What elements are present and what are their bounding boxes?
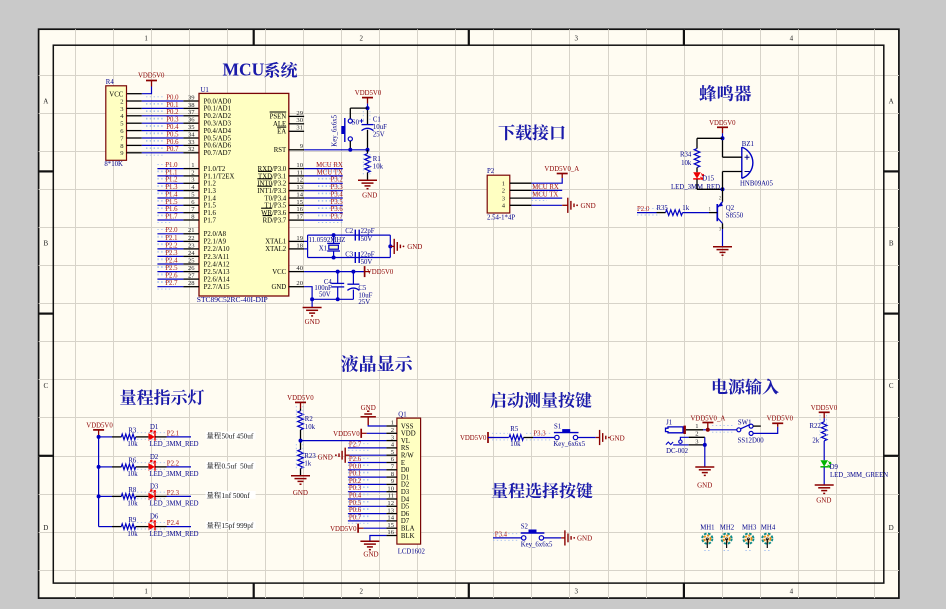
svg-text:2k: 2k — [812, 438, 819, 445]
svg-text:R3: R3 — [128, 427, 137, 434]
svg-text:P0.4: P0.4 — [166, 124, 179, 131]
svg-text:23: 23 — [188, 242, 195, 249]
svg-text:GND: GND — [697, 482, 712, 490]
svg-text:P1.3: P1.3 — [165, 184, 178, 191]
resistor R3 — [121, 434, 135, 440]
svg-text:GND: GND — [610, 434, 625, 442]
wire — [524, 437, 534, 439]
svg-text:P2.1: P2.1 — [167, 430, 179, 437]
svg-text:1k: 1k — [304, 461, 311, 468]
wire RST — [304, 149, 367, 151]
resistor R5 — [509, 435, 523, 441]
svg-text:28: 28 — [188, 280, 195, 287]
svg-text:DC-002: DC-002 — [666, 448, 689, 455]
svg-text:1: 1 — [191, 162, 194, 169]
svg-text:C3: C3 — [345, 251, 354, 258]
svg-text:P0.2: P0.2 — [349, 478, 362, 485]
annotation — [206, 462, 256, 470]
svg-text:13: 13 — [296, 184, 303, 191]
svg-text:P0.6: P0.6 — [349, 507, 362, 514]
wire — [155, 466, 166, 468]
svg-text:D3: D3 — [401, 489, 410, 496]
svg-text:25: 25 — [188, 257, 195, 264]
resistor R9 — [121, 524, 135, 530]
svg-text:MCU RX: MCU RX — [532, 184, 559, 191]
svg-text:GND: GND — [271, 284, 286, 291]
svg-text:P1.1: P1.1 — [165, 169, 177, 176]
svg-text:39: 39 — [188, 94, 195, 101]
annotation — [206, 521, 256, 529]
svg-text:P0.3: P0.3 — [349, 485, 362, 492]
svg-text:D9: D9 — [830, 464, 839, 471]
svg-text:2: 2 — [120, 98, 123, 105]
resistor R6 — [121, 464, 135, 470]
power VDD5V0 (SW1) — [772, 422, 783, 424]
wires XTAL — [304, 240, 308, 242]
svg-text:GND: GND — [577, 535, 592, 543]
svg-text:3: 3 — [575, 588, 579, 596]
svg-text:Key_6x6x5: Key_6x6x5 — [332, 114, 339, 146]
svg-text:P0.7: P0.7 — [349, 514, 362, 521]
wire MCU RX — [531, 189, 562, 191]
svg-text:P1.2: P1.2 — [204, 181, 217, 188]
svg-text:B: B — [43, 240, 48, 248]
svg-text:A: A — [889, 97, 894, 105]
svg-text:R/W: R/W — [401, 453, 414, 460]
svg-text:R5: R5 — [510, 426, 519, 433]
svg-text:1: 1 — [502, 181, 505, 188]
svg-text:Q1: Q1 — [398, 411, 406, 418]
wire — [696, 179, 698, 189]
svg-text:C: C — [889, 382, 894, 390]
svg-text:VDD5V0: VDD5V0 — [86, 422, 113, 429]
svg-text:10k: 10k — [127, 531, 138, 538]
svg-text:14: 14 — [296, 191, 303, 198]
svg-text:R1: R1 — [373, 156, 381, 163]
svg-text:P0.0: P0.0 — [349, 463, 362, 470]
svg-text:Q2: Q2 — [726, 205, 735, 212]
svg-text:GND: GND — [362, 192, 377, 200]
svg-text:1: 1 — [391, 420, 394, 427]
svg-text:P1.5: P1.5 — [165, 199, 178, 206]
svg-text:T0/P3.4: T0/P3.4 — [264, 195, 286, 202]
svg-text:12: 12 — [296, 177, 303, 184]
svg-text:35: 35 — [188, 124, 195, 131]
svg-text:VDD5V0: VDD5V0 — [287, 395, 314, 402]
svg-text:HNB09A05: HNB09A05 — [740, 180, 773, 187]
svg-text:3: 3 — [575, 35, 579, 43]
svg-text:C2: C2 — [345, 228, 354, 235]
svg-text:S8550: S8550 — [726, 213, 744, 220]
wire row P2.4 — [99, 526, 112, 528]
svg-text:LED_3MM_RED: LED_3MM_RED — [150, 531, 199, 538]
svg-text:X1: X1 — [319, 245, 327, 252]
svg-text:GND: GND — [407, 243, 422, 251]
switch S1 Key_6x6x5 — [555, 435, 559, 439]
svg-text:50V: 50V — [361, 236, 373, 243]
svg-text:E: E — [401, 460, 405, 467]
svg-text:SS12D00: SS12D00 — [738, 437, 765, 444]
svg-text:GND: GND — [816, 496, 831, 504]
svg-text:P0.4/AD4: P0.4/AD4 — [204, 128, 232, 135]
capacitor C5 — [352, 272, 354, 285]
capacitor C3 — [354, 252, 356, 263]
wire — [300, 430, 302, 450]
svg-text:16: 16 — [387, 529, 394, 536]
svg-text:D6: D6 — [401, 511, 410, 518]
svg-text:P0.0/AD0: P0.0/AD0 — [204, 98, 232, 105]
svg-text:P3.6: P3.6 — [331, 206, 344, 213]
svg-text:J1: J1 — [666, 419, 672, 426]
svg-text:VDD5V0: VDD5V0 — [355, 90, 382, 97]
svg-text:BLA: BLA — [401, 526, 415, 533]
svg-text:R6: R6 — [128, 457, 137, 464]
resistor R34 — [694, 149, 700, 168]
svg-text:P1.6: P1.6 — [204, 210, 217, 217]
ground (D9) — [815, 484, 834, 486]
svg-text:R23: R23 — [304, 453, 316, 460]
wire — [823, 441, 825, 460]
wire VCC — [304, 271, 365, 273]
svg-text:Key_6x6x5: Key_6x6x5 — [521, 542, 553, 549]
wire pin1 to VDD5V0_A — [531, 178, 562, 183]
svg-text:BLK: BLK — [401, 533, 415, 540]
wire — [637, 212, 657, 214]
svg-text:P3.5: P3.5 — [331, 199, 344, 206]
svg-text:22: 22 — [188, 235, 195, 242]
svg-text:VDD5V0: VDD5V0 — [767, 415, 794, 422]
svg-text:P2.3/A11: P2.3/A11 — [204, 254, 230, 261]
svg-text:50V: 50V — [319, 292, 331, 299]
wire — [823, 467, 825, 485]
title start measure button — [490, 392, 505, 408]
svg-text:P0.1/AD1: P0.1/AD1 — [204, 106, 231, 113]
svg-text:PSEN: PSEN — [270, 114, 287, 121]
svg-text:P1.7: P1.7 — [204, 217, 217, 224]
wire — [722, 133, 724, 138]
svg-text:P3.7: P3.7 — [331, 213, 344, 220]
resistor R8 — [121, 494, 135, 500]
svg-text:2: 2 — [695, 431, 698, 438]
svg-text:24: 24 — [188, 250, 195, 257]
svg-text:RS: RS — [401, 445, 410, 452]
svg-text:MCU TX: MCU TX — [532, 192, 558, 199]
svg-text:P0.4: P0.4 — [349, 493, 362, 500]
svg-text:P2.4/A12: P2.4/A12 — [204, 261, 230, 268]
svg-text:2: 2 — [359, 588, 363, 596]
title LCD display — [341, 355, 358, 372]
wire — [155, 436, 166, 438]
svg-text:P2.4: P2.4 — [167, 520, 180, 527]
svg-text:8*10K: 8*10K — [104, 161, 123, 168]
wire — [136, 495, 149, 497]
svg-text:11: 11 — [297, 169, 303, 176]
title download port — [499, 124, 515, 140]
svg-text:XTAL2: XTAL2 — [265, 246, 287, 253]
svg-text:19: 19 — [296, 235, 303, 242]
svg-text:R34: R34 — [680, 152, 692, 159]
wire — [136, 526, 149, 528]
svg-text:MCU RX: MCU RX — [316, 162, 343, 169]
svg-text:D1: D1 — [401, 474, 409, 481]
svg-text:38: 38 — [188, 102, 195, 109]
svg-text:10k: 10k — [127, 501, 138, 508]
svg-text:D0: D0 — [401, 467, 410, 474]
title range indicator LEDs — [120, 389, 136, 405]
LED D1 LED_3MM_RED — [148, 433, 154, 441]
title buzzer — [699, 85, 716, 101]
wire — [142, 87, 152, 94]
svg-text:21: 21 — [188, 227, 195, 234]
svg-text:P2.6/A14: P2.6/A14 — [204, 276, 230, 283]
svg-text:MH3: MH3 — [742, 525, 757, 532]
svg-text:17: 17 — [296, 213, 303, 220]
svg-text:1k: 1k — [682, 205, 689, 212]
wire VL — [301, 440, 387, 442]
annotation — [206, 491, 256, 499]
wire C1 to RST — [367, 130, 369, 150]
svg-text:2: 2 — [359, 35, 363, 43]
capacitor C4 — [337, 272, 339, 284]
svg-text:VDD5V0: VDD5V0 — [709, 120, 736, 127]
svg-text:P0.3: P0.3 — [166, 117, 179, 124]
svg-text:11.0592MHZ: 11.0592MHZ — [309, 237, 346, 244]
svg-text:26: 26 — [188, 265, 195, 272]
svg-text:P2.4: P2.4 — [165, 257, 178, 264]
wire GND pin — [304, 287, 353, 300]
wire S0 to RST — [349, 141, 351, 150]
svg-text:LED_3MM_GREEN: LED_3MM_GREEN — [830, 472, 888, 479]
resistor R1 — [367, 150, 369, 154]
svg-text:D15: D15 — [702, 176, 714, 183]
svg-text:P2.2: P2.2 — [165, 242, 178, 249]
title range select button — [492, 483, 508, 499]
svg-text:BZ1: BZ1 — [742, 141, 754, 148]
svg-text:GND: GND — [305, 318, 320, 326]
svg-text:P3.2: P3.2 — [331, 177, 344, 184]
svg-text:R22: R22 — [809, 423, 821, 430]
svg-text:P2.5: P2.5 — [165, 265, 178, 272]
svg-text:2.54-1*4P: 2.54-1*4P — [487, 215, 515, 222]
wire row P2.1 — [99, 436, 112, 438]
wire emitter — [722, 189, 724, 202]
svg-text:P0.7/AD7: P0.7/AD7 — [204, 150, 232, 157]
svg-text:25V: 25V — [373, 131, 385, 138]
svg-text:LED_3MM_RED: LED_3MM_RED — [150, 501, 199, 508]
resistor R2 — [298, 411, 304, 430]
wire BLK to GND — [370, 536, 387, 542]
ground (BLK) — [360, 540, 379, 542]
resistor R23 — [298, 450, 304, 469]
svg-text:MH2: MH2 — [720, 525, 735, 532]
svg-text:P2.7/A15: P2.7/A15 — [204, 284, 230, 291]
svg-text:VL: VL — [401, 438, 410, 445]
ground (reset) — [358, 179, 377, 181]
svg-text:P1.1/T2EX: P1.1/T2EX — [204, 173, 235, 180]
svg-text:R4: R4 — [106, 79, 115, 86]
svg-text:D3: D3 — [150, 484, 159, 491]
ground (crystal) — [390, 245, 394, 247]
svg-text:S1: S1 — [554, 423, 561, 430]
svg-text:P2.0/A8: P2.0/A8 — [204, 231, 227, 238]
svg-text:10: 10 — [296, 162, 303, 169]
svg-text:VDD5V0: VDD5V0 — [367, 269, 394, 276]
svg-text:D2: D2 — [150, 454, 159, 461]
svg-text:33: 33 — [188, 139, 195, 146]
svg-text:15: 15 — [296, 199, 303, 206]
svg-text:P1.7: P1.7 — [165, 213, 178, 220]
svg-text:Key_6x6x5: Key_6x6x5 — [553, 441, 585, 448]
svg-text:10k: 10k — [373, 164, 384, 171]
svg-text:P1.5: P1.5 — [204, 203, 217, 210]
svg-text:C: C — [43, 382, 48, 390]
wire MCU TX — [531, 197, 562, 199]
svg-text:P2.5/A13: P2.5/A13 — [204, 269, 230, 276]
svg-text:40: 40 — [296, 265, 303, 272]
svg-text:R2: R2 — [305, 416, 314, 423]
wire SW1 to VDD5V0 — [753, 427, 778, 434]
LED D2 LED_3MM_RED — [148, 463, 154, 471]
wire VDD to S0/C1 — [367, 104, 369, 109]
svg-text:29: 29 — [296, 110, 303, 117]
wire bus — [98, 436, 100, 527]
svg-text:1: 1 — [144, 35, 148, 43]
LED D6 LED_3MM_RED — [148, 523, 154, 531]
svg-text:D4: D4 — [401, 496, 410, 503]
svg-text:GND: GND — [581, 202, 596, 210]
svg-text:P2.2: P2.2 — [167, 460, 180, 467]
title power input — [713, 379, 728, 394]
svg-text:10k: 10k — [510, 441, 521, 448]
svg-text:D1: D1 — [150, 424, 158, 431]
switch S0 Key_6x6x5 — [348, 119, 352, 123]
svg-text:30: 30 — [296, 117, 303, 124]
svg-text:VDD5V0_A: VDD5V0_A — [544, 166, 579, 173]
svg-text:P2.7: P2.7 — [165, 280, 178, 287]
wire pin4 to GND — [531, 204, 562, 206]
power VDD5V0_A — [557, 173, 568, 175]
svg-text:2: 2 — [502, 188, 505, 195]
svg-text:22pF: 22pF — [361, 251, 375, 258]
svg-text:GND: GND — [318, 454, 333, 462]
svg-text:MH4: MH4 — [761, 525, 776, 532]
svg-text:P2.1: P2.1 — [165, 235, 177, 242]
ground (J1) — [695, 466, 714, 468]
wire — [823, 418, 825, 422]
wire — [136, 466, 149, 468]
ground (download) — [567, 198, 569, 213]
svg-text:4: 4 — [790, 588, 794, 596]
wire pin1 — [686, 429, 703, 431]
svg-text:C5: C5 — [358, 285, 367, 292]
svg-text:P1.4: P1.4 — [165, 191, 178, 198]
svg-text:4: 4 — [790, 35, 794, 43]
LED D9 LED_3MM_GREEN — [820, 460, 828, 466]
svg-text:XTAL1: XTAL1 — [265, 239, 286, 246]
svg-text:P0.6/AD6: P0.6/AD6 — [204, 143, 232, 150]
svg-text:2: 2 — [191, 169, 194, 176]
svg-text:10uF: 10uF — [373, 124, 387, 131]
svg-text:LCD1602: LCD1602 — [398, 549, 426, 556]
transistor Q2 S8550 — [716, 204, 718, 221]
svg-text:34: 34 — [188, 131, 195, 138]
svg-text:P1.6: P1.6 — [165, 206, 178, 213]
svg-text:P0.7: P0.7 — [166, 146, 179, 153]
svg-text:31: 31 — [296, 125, 303, 132]
svg-text:D2: D2 — [401, 482, 410, 489]
U1 left P1 P2 stubs and net labels — [157, 168, 183, 170]
svg-text:50V: 50V — [361, 259, 373, 266]
capacitor C1 — [362, 124, 374, 126]
svg-text:P2: P2 — [487, 168, 495, 175]
svg-text:VDD5V0: VDD5V0 — [811, 405, 838, 412]
svg-text:P1.2: P1.2 — [165, 177, 178, 184]
svg-text:P2.6: P2.6 — [165, 273, 178, 280]
svg-text:S2: S2 — [521, 524, 529, 531]
svg-text:P0.6: P0.6 — [166, 139, 179, 146]
ground (buzzer) — [713, 246, 732, 248]
wire — [136, 436, 149, 438]
wire — [696, 168, 698, 173]
annotation — [206, 432, 256, 440]
svg-text:P0.1: P0.1 — [349, 471, 361, 478]
svg-text:P0.5: P0.5 — [166, 131, 179, 138]
svg-text:1: 1 — [144, 588, 148, 596]
wires R4 to U1 P0 bus — [127, 100, 142, 102]
svg-text:P1.3: P1.3 — [204, 188, 217, 195]
svg-text:P2.0: P2.0 — [637, 206, 650, 213]
power VDD5V0 (VCC pin) — [364, 266, 366, 277]
wires U1 P3 nets — [304, 168, 343, 170]
crystal X1 11.0592MHZ — [327, 242, 340, 244]
svg-text:25V: 25V — [358, 299, 370, 306]
svg-text:D5: D5 — [401, 504, 410, 511]
wire — [493, 537, 521, 539]
svg-text:R8: R8 — [128, 487, 137, 494]
wire pin3 sleeve — [666, 442, 673, 445]
svg-text:MCU: MCU — [223, 59, 265, 79]
svg-text:P3.3: P3.3 — [331, 184, 344, 191]
data wires P0.0-P0.7 — [348, 469, 387, 471]
capacitor C2 — [354, 230, 356, 241]
svg-text:16: 16 — [296, 206, 303, 213]
svg-text:P1.0/T2: P1.0/T2 — [204, 166, 226, 173]
svg-text:VSS: VSS — [401, 423, 414, 430]
svg-text:10k: 10k — [305, 424, 316, 431]
svg-text:C1: C1 — [373, 116, 381, 123]
svg-text:P3.4: P3.4 — [331, 191, 344, 198]
svg-text:P0.5: P0.5 — [349, 500, 362, 507]
svg-text:EA: EA — [277, 129, 286, 136]
svg-text:RST: RST — [274, 147, 287, 154]
wire — [300, 469, 302, 476]
svg-text:D6: D6 — [150, 514, 159, 521]
svg-text:10k: 10k — [127, 471, 138, 478]
svg-text:MCU TX: MCU TX — [317, 169, 343, 176]
svg-text:VDD5V0: VDD5V0 — [460, 435, 487, 442]
svg-text:22pF: 22pF — [361, 228, 375, 235]
svg-text:P2.3: P2.3 — [167, 490, 180, 497]
resistor R22 — [821, 422, 827, 441]
svg-text:D: D — [43, 524, 48, 532]
svg-text:LED_3MM_RED: LED_3MM_RED — [150, 471, 199, 478]
ground (MCU) — [311, 299, 313, 307]
wire collector to GND — [722, 223, 724, 229]
ground (S1) — [599, 430, 601, 445]
svg-text:P2.2/A10: P2.2/A10 — [204, 246, 230, 253]
svg-text:27: 27 — [188, 273, 195, 280]
svg-text:50uf 450uf: 50uf 450uf — [222, 432, 254, 440]
